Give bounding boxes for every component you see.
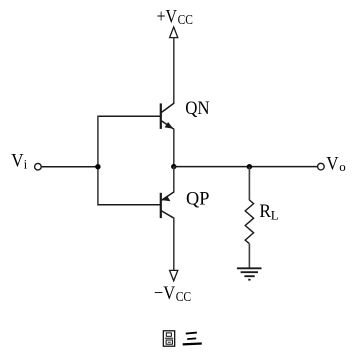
wire QP emitter: [173, 167, 175, 193]
wire QP base: [98, 204, 161, 206]
power arrow -VCC: [170, 270, 178, 280]
wire output rail: [174, 166, 318, 168]
wire QN base: [98, 115, 161, 117]
svg-text:V: V: [11, 150, 24, 171]
label -VCC: [154, 283, 191, 305]
power arrow +VCC: [170, 27, 178, 38]
ground: [237, 268, 262, 279]
caption glyph 圖: [163, 331, 174, 346]
node output junction: [171, 164, 176, 169]
label Vo: [326, 154, 346, 175]
transistor QP: [161, 192, 174, 219]
wire Vi to bus: [41, 166, 98, 168]
wire RL top lead: [248, 167, 250, 201]
label RL: [259, 201, 278, 222]
label +VCC: [157, 6, 193, 28]
wire QP collector to -VCC: [173, 218, 175, 270]
resistor RL: [245, 200, 253, 244]
svg-text:R: R: [259, 201, 271, 222]
svg-text:+V: +V: [157, 6, 178, 27]
svg-text:V: V: [326, 154, 339, 175]
wire RL bottom lead: [248, 244, 250, 269]
svg-text:o: o: [339, 159, 346, 174]
svg-text:L: L: [271, 207, 279, 222]
svg-text:CC: CC: [176, 290, 192, 305]
wire QN emitter to output node: [173, 129, 175, 167]
svg-text:−V: −V: [154, 283, 175, 304]
label Vi: [11, 150, 27, 171]
svg-text:QP: QP: [186, 188, 209, 209]
terminal Vi: [35, 163, 42, 170]
transistor QN: [161, 103, 174, 129]
wire input bus: [97, 116, 99, 206]
wire +VCC to QN collector: [173, 38, 175, 104]
node RL junction: [247, 164, 252, 169]
svg-text:CC: CC: [178, 13, 193, 28]
svg-text:QN: QN: [185, 98, 210, 119]
caption glyph 三: [183, 333, 202, 345]
terminal Vo: [318, 163, 325, 170]
node input junction: [95, 164, 100, 169]
svg-text:i: i: [24, 157, 28, 172]
